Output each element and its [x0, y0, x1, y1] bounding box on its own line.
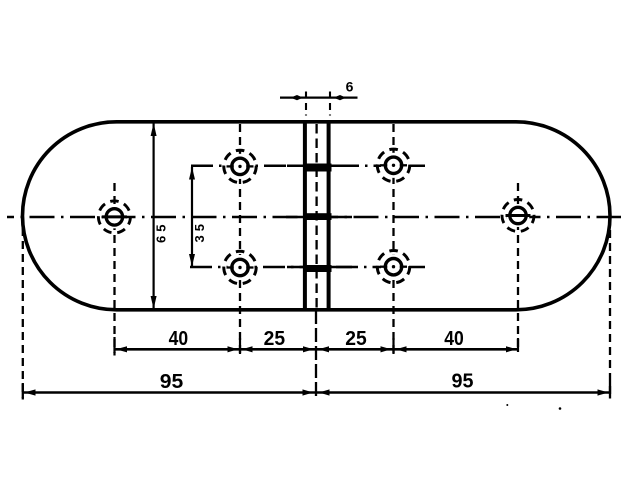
svg-text:25: 25	[345, 328, 367, 350]
svg-text:95: 95	[160, 371, 184, 393]
svg-text:95: 95	[452, 371, 474, 393]
svg-text:25: 25	[264, 328, 286, 350]
svg-text:40: 40	[169, 328, 189, 350]
svg-text:6: 6	[346, 79, 354, 95]
svg-text:40: 40	[444, 328, 464, 350]
